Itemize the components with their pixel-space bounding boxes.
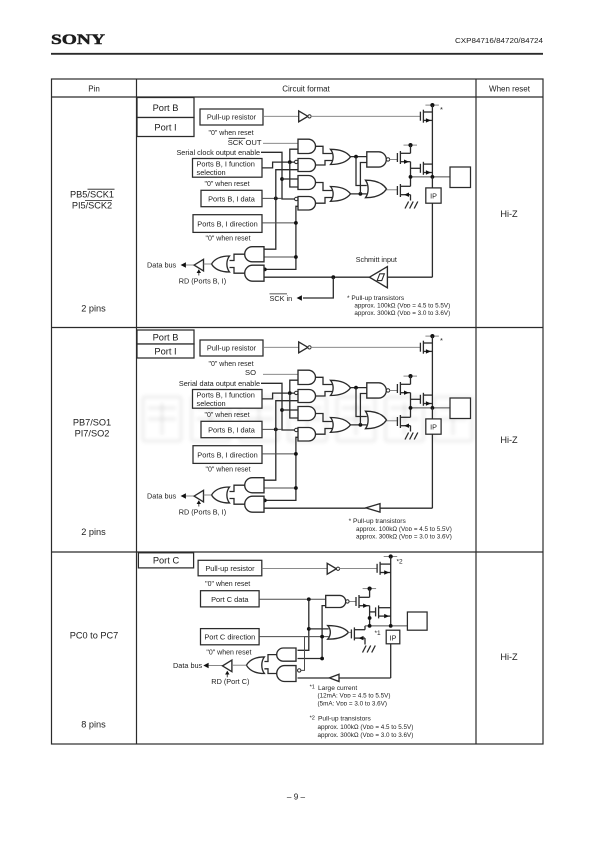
row1 wire inverter to pull-up PMOS gate <box>311 115 421 117</box>
svg-text:*1: *1 <box>375 630 382 637</box>
row1 IP box <box>426 188 441 203</box>
row3 pull-up PMOS *2 with supply <box>384 556 398 558</box>
row1 Port B box <box>137 98 194 118</box>
row1 data bus arrow <box>181 262 186 268</box>
row2 direction wire <box>262 453 296 455</box>
svg-text:Pull-up resistor: Pull-up resistor <box>207 344 257 353</box>
row2 enable stub to AND3 <box>280 408 284 412</box>
column divider Pin/Circuit <box>136 79 138 744</box>
row2 wires AND1 AND2 to OR1 <box>316 377 332 384</box>
svg-text:PC0 to PC7: PC0 to PC7 <box>70 631 119 641</box>
row2 function riser to AND3 <box>290 393 298 418</box>
row2 RD enable arrow <box>198 501 200 506</box>
row1 read buffer (tri-state) <box>194 259 203 271</box>
row3 direction riser to NAND input and read gate <box>298 606 326 659</box>
svg-text:Large current: Large current <box>318 685 357 692</box>
row3 wires read gates to OR <box>264 655 276 662</box>
row3 pad square <box>407 612 427 630</box>
svg-text:*: * <box>440 105 443 114</box>
svg-text:(5mA: Vᴅᴅ = 3.0 to 3.6V): (5mA: Vᴅᴅ = 3.0 to 3.6V) <box>318 700 387 707</box>
svg-text:– 9 –: – 9 – <box>287 793 306 802</box>
row1 RD enable arrow <box>198 270 200 275</box>
row2 wire OR-B to NMOS gate <box>387 420 398 422</box>
row3 data bus arrow <box>203 663 208 669</box>
row1 wire pad to Schmitt <box>387 276 432 278</box>
row2 wire pad to buffer <box>380 507 432 509</box>
row3 data riser to OR and read gate <box>298 599 309 650</box>
svg-text:(12mA: Vᴅᴅ = 4.5 to 5.5V): (12mA: Vᴅᴅ = 4.5 to 5.5V) <box>318 693 391 700</box>
svg-text:*2: *2 <box>397 559 404 566</box>
row1 inverter after pull-up resistor <box>299 111 308 122</box>
svg-text:* Pull-up transistors: * Pull-up transistors <box>349 518 407 525</box>
svg-text:Data bus: Data bus <box>173 661 203 670</box>
svg-text:Pull-up resistor: Pull-up resistor <box>205 564 255 573</box>
svg-text:Data bus: Data bus <box>147 491 177 500</box>
svg-text:PI5/SCK2: PI5/SCK2 <box>72 201 112 211</box>
row1 data riser to AND2 and read gate <box>264 170 298 250</box>
svg-text:* Pull-up transistors: * Pull-up transistors <box>347 295 405 302</box>
svg-text:Port B: Port B <box>153 103 179 113</box>
row3 NMOS rails <box>364 626 366 630</box>
row3 read gate2 bubble input <box>298 669 301 672</box>
row1 direction riser to AND4 and read gates <box>265 206 298 269</box>
row1 SCK in stub <box>303 277 333 298</box>
svg-text:Serial clock output enable: Serial clock output enable <box>176 148 260 157</box>
row2 stub PMOS2 drain to PMOS3 gate <box>411 398 421 400</box>
row1 wire OR2 to OR-B and NAND <box>351 193 367 195</box>
row3 pad node wire <box>365 625 407 627</box>
svg-text:When reset: When reset <box>489 84 531 93</box>
svg-text:*2: *2 <box>310 715 315 721</box>
row1 pad node wire <box>411 176 451 178</box>
row2 data bus arrow <box>181 493 186 499</box>
row1 read AND gate 1 <box>245 247 264 262</box>
svg-text:"0" when reset: "0" when reset <box>204 412 249 419</box>
row2 OR gate 2 <box>331 418 351 433</box>
row1 function riser to AND1 <box>290 149 298 162</box>
svg-text:PB5/SCK1: PB5/SCK1 <box>70 190 114 200</box>
row2 read OR gate <box>212 487 230 503</box>
svg-text:CXP84716/84720/84724: CXP84716/84720/84724 <box>455 36 543 45</box>
row3 wire OR to NMOS gate <box>348 631 351 633</box>
row2 AND gate 3 (mux enable) <box>298 407 316 421</box>
row3 pull-up PMOS drain to node <box>390 557 392 626</box>
row1 output PMOS with supply <box>404 144 418 146</box>
row3 read AND gate 2 <box>277 666 296 682</box>
svg-text:selection: selection <box>197 399 226 408</box>
row1 pull-up PMOS transistor with supply <box>425 104 439 106</box>
row2 inverter after pull-up resistor <box>299 342 308 353</box>
svg-text:SCK in: SCK in <box>270 294 293 303</box>
svg-text:RD (Port C): RD (Port C) <box>211 677 249 686</box>
row1 series PMOS3 <box>419 164 421 173</box>
row2 wire SO to AND1 <box>263 373 298 375</box>
svg-text:2 pins: 2 pins <box>81 304 106 314</box>
row1 output NMOS <box>396 186 398 195</box>
svg-text:Pull-up resistor: Pull-up resistor <box>207 113 257 122</box>
row2 direction riser to AND4 and read gates <box>265 437 298 500</box>
svg-text:Port C: Port C <box>153 556 180 566</box>
row3 wire pad to buffer <box>339 677 391 679</box>
row2 output NMOS <box>396 417 398 426</box>
row2 enable wire to bus <box>261 383 295 430</box>
svg-text:Serial data output enable: Serial data output enable <box>179 379 260 388</box>
svg-text:"0" when reset: "0" when reset <box>205 236 250 243</box>
row1 AND gate 3 (mux enable) <box>298 176 316 190</box>
svg-text:approx. 300kΩ (Vᴅᴅ = 3.0 to 3.: approx. 300kΩ (Vᴅᴅ = 3.0 to 3.6V) <box>354 310 450 317</box>
row1 pull-up PMOS drain wire to pad node <box>431 105 433 177</box>
row divider 2/3 <box>52 551 544 553</box>
row2 read AND gate 1 <box>245 478 264 493</box>
svg-text:IP: IP <box>390 633 397 642</box>
row3 OR gate driving NMOS <box>328 626 349 640</box>
row3 wire NAND to PMOS <box>349 601 356 603</box>
row2 output PMOS rails <box>410 376 412 384</box>
row3 wire buffer to read gate2 <box>298 677 330 679</box>
row1 NAND gate driving PMOS <box>367 152 387 167</box>
svg-text:Ports B, I data: Ports B, I data <box>208 426 256 435</box>
row1 OR gate 2 <box>331 187 351 202</box>
row2 NAND gate driving PMOS <box>367 383 386 398</box>
row2 series PMOS3 <box>419 395 421 404</box>
row3 output PMOS with supply <box>363 588 377 590</box>
row1 wire SCK OUT to AND1 <box>263 142 298 144</box>
row2 wire node down through IP <box>431 408 433 419</box>
row1 read AND gate 2 <box>245 265 264 281</box>
row1 Port I box <box>137 118 194 137</box>
svg-text:"0" when reset: "0" when reset <box>206 650 251 657</box>
svg-text:Port C data: Port C data <box>211 595 249 604</box>
svg-text:approx. 100kΩ (Vᴅᴅ = 4.5 to 5.: approx. 100kΩ (Vᴅᴅ = 4.5 to 5.5V) <box>318 724 414 731</box>
row2 data box wire with junction <box>262 428 283 430</box>
svg-text:Ports B, I direction: Ports B, I direction <box>197 451 257 460</box>
row3 read AND gate 1 <box>277 648 296 661</box>
row1 enable stub to AND3 <box>280 177 284 181</box>
row2 Ports B, I data box <box>201 421 262 437</box>
row3 inverter after pull-up <box>327 563 336 574</box>
row2 wires read gates to OR <box>230 485 245 491</box>
svg-text:approx. 100kΩ (Vᴅᴅ = 4.5 to 5.: approx. 100kΩ (Vᴅᴅ = 4.5 to 5.5V) <box>354 302 450 309</box>
svg-text:"0" when reset: "0" when reset <box>204 181 249 188</box>
row1 direction wire <box>262 222 296 224</box>
row1 wire pull-up box to inverter <box>263 115 299 117</box>
row3 RD enable arrow <box>226 672 228 678</box>
row1 Ports B, I direction box <box>193 215 262 233</box>
svg-text:Ports B, I data: Ports B, I data <box>208 195 256 204</box>
row1 enable wire to bus <box>261 152 295 199</box>
row1 Schmitt trigger <box>369 267 387 288</box>
row2 output PMOS with supply <box>404 375 418 377</box>
svg-text:2 pins: 2 pins <box>81 527 106 537</box>
svg-text:Schmitt input: Schmitt input <box>356 256 397 264</box>
svg-text:"0" when reset: "0" when reset <box>205 467 250 474</box>
row2 read buffer (tri-state) <box>194 490 203 502</box>
row3 data wire to NAND <box>259 598 326 600</box>
svg-text:Pin: Pin <box>88 84 100 93</box>
row3 read buffer <box>223 660 232 672</box>
svg-text:Hi-Z: Hi-Z <box>500 435 518 445</box>
row1 wires AND3 AND4 to OR2 <box>316 183 332 191</box>
table outer border <box>52 79 544 744</box>
header rule <box>51 53 543 55</box>
row2 function riser to AND1 <box>290 380 298 393</box>
row2 input buffer triangle <box>366 504 380 512</box>
row1 AND gate 2 (mux port data) <box>298 159 316 172</box>
table header row line <box>52 96 544 98</box>
row3 wire inverter to PMOS gate <box>339 567 377 569</box>
row3 stub to PMOS3 gate <box>370 611 376 613</box>
row1 pull-up resistor box <box>200 109 263 125</box>
row2 OR gate 1 <box>331 380 351 395</box>
row3 Port C box <box>138 553 193 568</box>
row1 stub PMOS2 drain to PMOS3 gate <box>411 167 421 169</box>
row1 wires AND1 AND2 to OR1 <box>316 146 332 153</box>
svg-text:PB7/SO1: PB7/SO1 <box>73 418 111 428</box>
row1 wire NAND to output PMOS <box>390 159 398 161</box>
row1 function riser to AND3 <box>290 162 298 187</box>
row1 data box wire with junction <box>262 197 283 199</box>
row2 read AND gate 2 <box>245 496 264 512</box>
svg-text:IP: IP <box>430 192 437 201</box>
svg-text:PI7/SO2: PI7/SO2 <box>75 429 110 439</box>
faint watermark <box>143 397 472 441</box>
svg-text:8 pins: 8 pins <box>81 720 106 730</box>
row3 ground under NMOS <box>363 646 367 653</box>
row2 Ports B, I direction box <box>193 446 262 464</box>
row3 read OR gate <box>246 657 264 674</box>
row3 output NMOS *1 <box>350 629 352 638</box>
row2 direction stub to read gate1 <box>264 487 296 489</box>
svg-text:RD (Ports B, I): RD (Ports B, I) <box>179 277 226 286</box>
row1 ground under NMOS <box>405 202 409 209</box>
row2 Port I box <box>137 344 194 358</box>
row2 AND gate 2 (mux port data) <box>298 390 316 403</box>
row1 Ports B, I data box <box>201 190 262 206</box>
row2 wire inverter to pull-up PMOS gate <box>311 346 421 348</box>
svg-text:Port I: Port I <box>154 122 176 132</box>
row1 wire Schmitt to read gate2 <box>264 276 369 278</box>
row3 input buffer triangle <box>329 674 339 681</box>
row2 OR gate driving NMOS <box>366 411 387 429</box>
row1 OR gate driving NMOS <box>366 180 387 198</box>
row2 AND gate 1 (mux serial out) <box>298 370 315 384</box>
svg-text:Ports B, I direction: Ports B, I direction <box>197 220 257 229</box>
svg-text:SCK OUT: SCK OUT <box>228 138 262 147</box>
row1 function selection wire <box>262 162 295 168</box>
row2 wire OR1 to NAND and OR-B <box>351 387 367 389</box>
row2 wire pull-up box to inverter <box>263 346 299 348</box>
row2 wire NAND to output PMOS <box>390 390 398 392</box>
svg-text:approx. 100kΩ (Vᴅᴅ = 4.5 to 5.: approx. 100kΩ (Vᴅᴅ = 4.5 to 5.5V) <box>356 526 452 533</box>
svg-text:Port C direction: Port C direction <box>204 633 255 642</box>
row2 pad square <box>450 398 471 419</box>
svg-text:*: * <box>440 336 443 345</box>
svg-text:approx. 300kΩ (Vᴅᴅ = 3.0 to 3.: approx. 300kΩ (Vᴅᴅ = 3.0 to 3.6V) <box>318 732 414 739</box>
svg-text:approx. 300kΩ (Vᴅᴅ = 3.0 to 3.: approx. 300kΩ (Vᴅᴅ = 3.0 to 3.6V) <box>356 533 452 540</box>
row1 wire OR1 to NAND and OR-B <box>351 156 367 158</box>
row2 pad node wire <box>411 407 451 409</box>
svg-text:"0" when reset: "0" when reset <box>205 581 250 588</box>
row3 IP box <box>386 630 400 644</box>
row2 pull-up resistor box <box>200 340 263 356</box>
row3 Port C data box <box>201 591 260 607</box>
svg-text:Data bus: Data bus <box>147 260 177 269</box>
svg-text:Hi-Z: Hi-Z <box>500 209 518 219</box>
row2 data riser to AND2 and read gate <box>264 401 298 481</box>
svg-text:RD (Ports B, I): RD (Ports B, I) <box>179 508 226 517</box>
row1 OR gate 1 <box>331 149 351 164</box>
row1 wires read gates to OR <box>230 254 245 260</box>
row2 pull-up PMOS drain wire to pad node <box>431 336 433 408</box>
row1 pad square <box>450 167 471 188</box>
row2 pull-up PMOS transistor with supply <box>425 335 439 337</box>
row2 function selection wire <box>262 393 295 399</box>
row1 Ports B, I function selection box <box>193 159 263 178</box>
row3 wire pull-up to inverter <box>262 567 327 569</box>
row1 wire OR-B to NMOS gate <box>387 189 398 191</box>
row2 Port B box <box>137 330 194 344</box>
row2 ground under NMOS <box>405 433 409 440</box>
row1 direction stub to read gate1 <box>264 256 296 258</box>
row1 read OR gate <box>212 256 230 272</box>
row2 wire OR2 to OR-B and NAND <box>351 424 367 426</box>
row3 Port C direction box <box>201 629 260 645</box>
svg-text:SONY: SONY <box>51 32 105 48</box>
svg-text:Port B: Port B <box>153 332 179 342</box>
svg-text:Pull-up transistors: Pull-up transistors <box>318 716 371 723</box>
row1 AND gate 4 (mux direction) <box>298 197 316 211</box>
row1 AND gate 1 (mux serial out) <box>298 139 316 153</box>
row divider 1/2 <box>52 327 544 329</box>
row2 wire buffer to read gate2 <box>264 507 366 509</box>
row2 IP box <box>426 419 441 434</box>
row3 direction wire to OR <box>259 636 329 638</box>
row3 NAND gate driving PMOS <box>326 595 346 607</box>
row2 AND gate 4 (mux direction) <box>298 428 316 442</box>
svg-text:"0" when reset: "0" when reset <box>208 130 253 137</box>
svg-text:*1: *1 <box>310 685 315 691</box>
svg-text:Circuit format: Circuit format <box>282 84 330 93</box>
row3 PMOS rails <box>369 589 371 598</box>
svg-text:SO: SO <box>245 368 256 377</box>
svg-text:Port I: Port I <box>154 346 176 356</box>
svg-text:IP: IP <box>430 423 437 432</box>
row1 wire node down through IP <box>431 177 433 188</box>
row2 wires AND3 AND4 to OR2 <box>316 414 332 422</box>
row1 output PMOS rails <box>410 145 412 153</box>
svg-text:Hi-Z: Hi-Z <box>500 652 518 662</box>
row3 wire node through IP down <box>390 644 392 678</box>
row2 Ports B, I function selection box <box>193 390 263 409</box>
column divider Circuit/When-reset <box>475 79 477 744</box>
row3 pull-up resistor box <box>198 560 262 576</box>
svg-text:selection: selection <box>197 168 226 177</box>
row3 series PMOS3 <box>375 607 377 616</box>
